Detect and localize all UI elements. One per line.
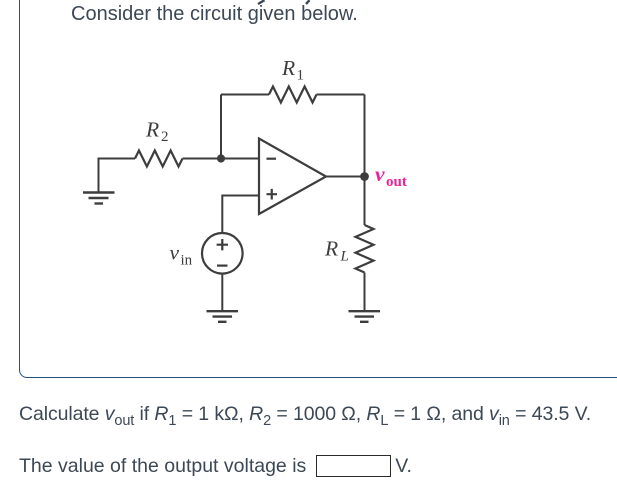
- output node dot: [360, 172, 369, 181]
- wire right vertical down to output node: [364, 95, 366, 177]
- ground (below source): [207, 311, 239, 322]
- wire top-left vertical from node A up: [220, 95, 222, 159]
- wire R2 to op-amp minus input: [183, 158, 260, 160]
- title text: [71, 3, 358, 26]
- answer line with input box: [19, 455, 412, 478]
- wire source to ground: [221, 274, 223, 311]
- wire top horizontal right segment: [317, 94, 365, 96]
- svg-text:R: R: [145, 118, 159, 142]
- wire output node down to RL: [364, 177, 366, 226]
- wire RL to ground: [364, 273, 366, 312]
- circuit schematic SVG: [0, 0, 617, 360]
- voltage source Vin circle: [202, 233, 243, 274]
- wire from left ground to R2: [99, 159, 136, 193]
- svg-text:v: v: [375, 162, 385, 186]
- svg-text:R: R: [281, 56, 295, 80]
- question line: [19, 403, 591, 426]
- resistor RL: [356, 225, 374, 273]
- label vout (magenta): [375, 162, 407, 190]
- wire plus input to source: [222, 196, 259, 234]
- svg-text:1: 1: [297, 68, 305, 84]
- op-amp plus sign: [267, 189, 278, 200]
- svg-text:L: L: [340, 249, 349, 265]
- svg-text:in: in: [181, 253, 193, 269]
- resistor R1: [269, 87, 317, 103]
- op-amp minus sign: [267, 158, 277, 160]
- node A junction dot: [217, 154, 225, 162]
- card border box: [19, 0, 617, 378]
- ground (left): [83, 193, 115, 204]
- svg-text:R: R: [324, 237, 338, 261]
- svg-text:2: 2: [161, 129, 169, 145]
- op-amp U1 triangle: [259, 139, 326, 215]
- svg-text:v: v: [170, 241, 180, 265]
- wire op-amp output to node: [326, 176, 365, 178]
- cut-off text remnants at top: [0, 0, 617, 10]
- ground (below RL): [349, 311, 381, 322]
- wire top horizontal left segment: [221, 94, 269, 96]
- minus sign inside source: [217, 265, 228, 267]
- svg-text:out: out: [386, 174, 407, 190]
- plus sign inside source: [217, 239, 228, 250]
- resistor R2: [135, 151, 183, 167]
